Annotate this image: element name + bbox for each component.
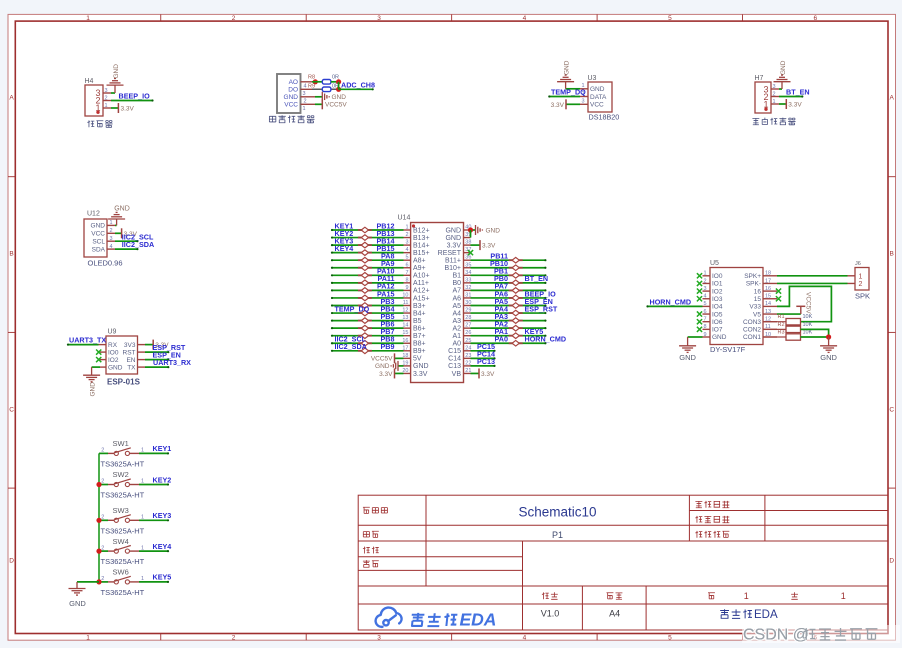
wire U14 pin 3 net PB14 (332, 244, 404, 246)
svg-text:2: 2 (101, 448, 104, 454)
power flag 3.3V at U12 (121, 228, 123, 238)
svg-text:B12+: B12+ (413, 227, 430, 234)
resistor R3 10K (763, 329, 813, 340)
title label 绘制 (363, 547, 370, 554)
switch SW6 (99, 568, 145, 597)
wire U14 pin39 GND (470, 230, 472, 238)
wire U14 pin 28 net PA3 (471, 320, 546, 322)
no-connect U5 pin 1 (697, 273, 702, 278)
no-connect U5 pin 15 (776, 296, 781, 301)
svg-text:A8+: A8+ (413, 258, 426, 265)
junction switch bus (96, 482, 101, 487)
zone tick top (160, 14, 162, 21)
svg-text:9: 9 (703, 332, 706, 338)
svg-text:HORN_CMD: HORN_CMD (525, 335, 567, 344)
wire U14 pin 11 net PB3 (332, 305, 404, 307)
power flag 3.3V at U14 left (394, 368, 396, 378)
wire U14 pin 36 net PB11 (471, 259, 546, 261)
U5 pin 12 (763, 321, 777, 323)
wire H4 pin1 to 3.3V (111, 107, 118, 109)
svg-text:TS3625A-HT: TS3625A-HT (101, 459, 145, 468)
svg-text:H7: H7 (755, 75, 764, 82)
svg-text:A4: A4 (609, 609, 620, 619)
svg-text:TEMP_DQ: TEMP_DQ (551, 88, 586, 97)
U14 pin 20 (404, 372, 411, 374)
svg-text:A5: A5 (452, 303, 461, 310)
svg-text:U12: U12 (87, 211, 100, 218)
power flag VCC5V at sensor (321, 99, 323, 109)
zone tick bottom (305, 634, 307, 641)
svg-text:SW1: SW1 (113, 439, 129, 448)
svg-text:TS3625A-HT: TS3625A-HT (101, 526, 145, 535)
wire U14 pin 5 net PA8 (332, 259, 404, 261)
no-connect IO0 (96, 350, 101, 355)
svg-text:17: 17 (765, 278, 771, 284)
svg-text:IO0: IO0 (108, 349, 119, 356)
svg-text:B15+: B15+ (413, 250, 430, 257)
svg-text:IO4: IO4 (712, 304, 723, 311)
svg-text:B1: B1 (452, 273, 461, 280)
svg-text:SPK-: SPK- (746, 281, 761, 288)
zone tick top (742, 14, 744, 21)
svg-text:A3: A3 (452, 318, 461, 325)
wire U14 pin38 3.3V (471, 244, 481, 246)
MCU U14 (411, 223, 464, 383)
svg-text:IO6: IO6 (712, 319, 723, 326)
svg-text:RESET: RESET (438, 250, 462, 257)
U5 pin 5 (703, 305, 711, 307)
wire CON1 to ground node (801, 336, 829, 338)
svg-text:GND: GND (590, 86, 605, 93)
svg-text:A0: A0 (452, 341, 461, 348)
svg-text:A: A (890, 94, 895, 101)
power flag 3.3V at H7 (785, 99, 787, 109)
wire U14 pin 6 net PA9 (332, 267, 404, 269)
junction switch bus (96, 518, 101, 523)
U14 pin 25 (464, 342, 471, 344)
svg-text:18: 18 (765, 271, 771, 277)
U14 pin 29 (464, 312, 471, 314)
net port diamond left row 14 (358, 327, 372, 329)
svg-text:A9+: A9+ (413, 265, 426, 272)
U14 pin 9 (404, 289, 411, 291)
title label 图页 (363, 532, 369, 537)
svg-text:3.3V: 3.3V (481, 371, 495, 378)
wire U9 GND (92, 366, 100, 368)
wire U14 pin 4 net PB15 (332, 252, 404, 254)
power flag VCC5V at U5 (800, 306, 802, 314)
wire U5 GND (688, 336, 703, 338)
wire U14 pin 8 net PA11 (332, 282, 404, 284)
title label 原理图 (363, 507, 370, 513)
sensor module box 烟雾传感器 (277, 74, 301, 113)
wire H7 pin1 to 3.3V (779, 103, 786, 105)
wire U14 net PC14 (471, 357, 495, 359)
wire SPK- to J6 (777, 282, 848, 284)
svg-text:IO0: IO0 (712, 273, 723, 280)
svg-text:A4: A4 (452, 310, 461, 317)
svg-text:V33: V33 (749, 304, 761, 311)
switch SW4 (99, 537, 145, 566)
svg-text:UART3_RX: UART3_RX (153, 358, 191, 367)
U9 pin IO0 (100, 351, 106, 353)
U9 pin RST (138, 351, 146, 353)
H7 value 声音传感器 (752, 118, 759, 124)
OLED display U12 (84, 219, 107, 257)
svg-text:B14+: B14+ (413, 242, 430, 249)
svg-text:3: 3 (581, 99, 584, 105)
svg-text:2: 2 (101, 479, 104, 485)
ground flag GND at U14 left (397, 361, 399, 371)
svg-text:10K: 10K (803, 314, 813, 320)
wire U9 3V3 (145, 344, 153, 346)
svg-text:3: 3 (377, 634, 381, 641)
sensor pin 1 VCC (301, 103, 316, 105)
H7 pin 3 (771, 88, 779, 90)
power flag 3.3V at VB (478, 368, 480, 378)
svg-text:GND: GND (89, 382, 96, 397)
U14 pin 23 (464, 357, 471, 359)
title label 共 (791, 592, 798, 599)
wire U14 pin 13 net PB5 (332, 320, 404, 322)
net port diamond left row 5 (358, 259, 372, 261)
svg-text:IO1: IO1 (712, 281, 723, 288)
wire U14 pin 25 net PA0 (471, 342, 546, 344)
svg-text:R1: R1 (778, 314, 785, 320)
svg-text:DS18B20: DS18B20 (589, 113, 620, 122)
ground flag GND above H4 (107, 84, 124, 86)
svg-text:ESP-01S: ESP-01S (107, 378, 141, 387)
net port diamond left row 15 (358, 335, 372, 337)
U12 pin 1 (107, 224, 115, 226)
U14 pin 5 (404, 259, 411, 261)
svg-text:B5: B5 (413, 318, 422, 325)
wire KEY4 (139, 550, 168, 552)
svg-text:GND: GND (679, 353, 696, 362)
svg-text:SPK+: SPK+ (744, 273, 761, 280)
wire U14 pin 12 net PB4 (332, 312, 404, 314)
H4 value 蜂鸣器 (87, 120, 94, 127)
svg-text:PC13: PC13 (477, 357, 495, 366)
ground flag GND switches (69, 588, 86, 590)
title label 创建日期 (695, 516, 702, 523)
wire UART3_RX (145, 366, 168, 368)
U14 pin 17 (404, 350, 411, 352)
net port diamond left row 2 (358, 237, 372, 239)
svg-text:BEEP_IO: BEEP_IO (119, 92, 151, 101)
svg-text:R8: R8 (308, 75, 315, 81)
wire KEY3 (139, 519, 168, 521)
svg-text:B3+: B3+ (413, 303, 426, 310)
U5 pin 8 (703, 328, 711, 330)
zone tick bottom (451, 634, 453, 641)
svg-text:A: A (9, 94, 14, 101)
net port diamond left row 6 (358, 267, 372, 269)
svg-text:GND: GND (69, 599, 86, 608)
svg-text:EN: EN (126, 357, 135, 364)
svg-text:8: 8 (703, 324, 706, 330)
logo text 嘉立创EDA (411, 613, 458, 626)
svg-text:V1.0: V1.0 (541, 609, 560, 619)
U5 pin 4 (703, 298, 711, 300)
wire KEY1 (139, 452, 168, 454)
svg-text:VCC5V: VCC5V (371, 356, 393, 363)
svg-text:HORN_CMD: HORN_CMD (650, 297, 692, 306)
svg-text:OLED0.96: OLED0.96 (88, 259, 123, 268)
wire ESP_EN (145, 359, 168, 361)
svg-text:1: 1 (86, 15, 90, 22)
wire U14 pin 9 net PA12 (332, 289, 404, 291)
net port diamond right row 10 (509, 297, 523, 299)
svg-text:B: B (890, 250, 894, 257)
svg-text:A6: A6 (452, 295, 461, 302)
svg-text:B8+: B8+ (413, 341, 426, 348)
wire H4 pin3 to GND (111, 92, 115, 94)
svg-text:15: 15 (754, 296, 762, 303)
net port diamond left row 16 (358, 342, 372, 344)
svg-text:3: 3 (110, 236, 113, 242)
svg-text:5: 5 (703, 301, 706, 307)
wire U14 pin 32 net PA7 (471, 289, 546, 291)
svg-text:6: 6 (405, 262, 408, 268)
svg-text:A2: A2 (452, 325, 461, 332)
net port diamond right row 12 (509, 312, 523, 314)
U5 pin 1 (703, 275, 711, 277)
svg-text:B11+: B11+ (445, 258, 461, 265)
switch SW2 (99, 470, 145, 499)
watermark CSDN @猫女士的喵 (742, 625, 900, 644)
svg-text:3.3V: 3.3V (788, 102, 802, 109)
zone tick top (451, 14, 453, 21)
H4 pin 1 (103, 107, 111, 109)
U14 pin 32 (464, 289, 471, 291)
U14 pin 27 (464, 327, 471, 329)
ground flag GND at U14 right (475, 225, 477, 235)
svg-text:EDA: EDA (754, 609, 778, 621)
connector H7 (755, 82, 771, 113)
no-connect U5 pin 7 (697, 319, 702, 324)
net port diamond right row 7 (509, 274, 523, 276)
zone tick left (8, 176, 15, 178)
wire U12 GND (115, 224, 117, 226)
wire HORN_CMD to U5 (648, 305, 703, 307)
svg-text:VB: VB (452, 371, 462, 378)
wire CON2 to node (801, 329, 829, 337)
svg-text:ADC_CH8: ADC_CH8 (341, 80, 375, 89)
U5 pin 9 (703, 336, 711, 338)
svg-text:2: 2 (105, 95, 108, 101)
svg-text:VCC5V: VCC5V (805, 292, 812, 314)
U14 pin 10 (404, 297, 411, 299)
wire U14 pin 15 net PB7 (332, 335, 404, 337)
svg-text:5: 5 (668, 634, 672, 641)
U12 pin 2 (107, 232, 115, 234)
svg-text:U5: U5 (710, 260, 719, 267)
wire U14 pin 16 net PB8 (332, 342, 404, 344)
svg-text:1: 1 (703, 271, 706, 277)
svg-text:14: 14 (765, 301, 771, 307)
svg-text:5V: 5V (413, 356, 422, 363)
U14 pin 39 (464, 237, 471, 239)
U14 pin 16 (404, 342, 411, 344)
net port diamond left row 3 (358, 244, 372, 246)
U12 pin 3 (107, 240, 115, 242)
U5 pin 14 (763, 305, 777, 307)
U3 pin 1 (580, 88, 588, 90)
wire IIC2_SCL (115, 240, 137, 242)
svg-text:13: 13 (765, 309, 771, 315)
svg-text:TS3625A-HT: TS3625A-HT (101, 557, 145, 566)
svg-text:C15: C15 (448, 348, 461, 355)
sensor pin 3 DO (301, 88, 313, 90)
connector J6 SPK (855, 268, 869, 291)
net port diamond left row 11 (358, 305, 372, 307)
svg-text:7: 7 (405, 270, 408, 276)
svg-text:IIC2_SDA: IIC2_SDA (335, 342, 367, 351)
temperature sensor U3 (588, 82, 612, 112)
svg-text:CON2: CON2 (743, 327, 761, 334)
no-connect U5 pin 6 (697, 311, 702, 316)
svg-text:DO: DO (288, 86, 298, 93)
power flag VCC5V at U14 (394, 353, 396, 363)
svg-text:BT_EN: BT_EN (525, 274, 549, 283)
U14 pin 19 (404, 365, 411, 367)
wire ADC_CH8 (339, 88, 373, 90)
svg-text:CSDN @: CSDN @ (743, 627, 809, 644)
junction switch bus (96, 579, 101, 584)
svg-text:GND: GND (820, 353, 837, 362)
wire U14 pin 26 net PA1 (471, 335, 546, 337)
wire U3 VCC to 3.3V (566, 103, 580, 105)
no-connect U5 pin 4 (697, 296, 702, 301)
svg-text:4: 4 (703, 294, 706, 300)
net port diamond right row 6 (509, 267, 523, 269)
U14 pin 38 (464, 244, 471, 246)
sensor value 烟雾传感器 (269, 116, 275, 122)
wire ESP_RST (145, 351, 168, 353)
ground flag GND right of U5 (820, 345, 837, 347)
svg-text:4: 4 (523, 15, 527, 22)
svg-text:1: 1 (744, 591, 749, 601)
svg-text:IIC2_SDA: IIC2_SDA (122, 240, 154, 249)
ground flag GND below U5 (679, 345, 696, 347)
net port diamond left row 7 (358, 274, 372, 276)
svg-text:1: 1 (859, 273, 863, 280)
ground flag GND above U12 (108, 218, 125, 220)
wire U14 net PC15 (471, 350, 495, 352)
wire switch common bus (98, 453, 100, 582)
zone tick bottom (596, 634, 598, 641)
svg-text:2: 2 (232, 15, 236, 22)
svg-text:3.3V: 3.3V (447, 242, 462, 249)
wire U14 net PC13 (471, 365, 495, 367)
svg-text:B6+: B6+ (413, 325, 426, 332)
svg-text:SW4: SW4 (113, 537, 129, 546)
svg-text:GND: GND (284, 94, 299, 101)
svg-text:AO: AO (289, 79, 298, 86)
ground flag GND above U3 (557, 81, 574, 83)
sensor pin 4 AO (301, 81, 313, 83)
net port diamond right row 15 (509, 335, 523, 337)
U14 pin 8 (404, 282, 411, 284)
svg-text:3: 3 (703, 286, 706, 292)
U14 pin 4 (404, 252, 411, 254)
net port diamond left row 4 (358, 252, 372, 254)
net port diamond right row 8 (509, 282, 523, 284)
svg-text:GND: GND (445, 227, 461, 234)
svg-text:3.3V: 3.3V (413, 371, 428, 378)
svg-text:3: 3 (303, 91, 306, 97)
junction node A top (336, 79, 341, 84)
switch SW3 (99, 506, 145, 535)
wire U5 V5 (777, 313, 801, 315)
wire DO to R9 gray (312, 88, 339, 90)
svg-text:SDA: SDA (92, 246, 106, 253)
wire AO to R8 (312, 81, 322, 83)
U5 pin 15 (763, 298, 777, 300)
svg-text:3.3V: 3.3V (121, 106, 135, 113)
U9 pin RX (99, 344, 107, 346)
svg-text:KEY4: KEY4 (335, 244, 354, 253)
zone tick left (8, 487, 15, 489)
junction switch bus (96, 549, 101, 554)
wire U14 pin 29 net PA4 (471, 312, 546, 314)
svg-text:DATA: DATA (590, 94, 607, 101)
H7 pin 2 (771, 96, 779, 98)
net port diamond right row 16 (509, 342, 523, 344)
svg-text:SW2: SW2 (113, 470, 129, 479)
svg-text:3: 3 (773, 84, 776, 90)
svg-text:2: 2 (110, 228, 113, 234)
svg-text:PA0: PA0 (495, 335, 508, 344)
U14 pin 24 (464, 350, 471, 352)
svg-text:SPK: SPK (855, 292, 870, 301)
svg-text:A7: A7 (452, 288, 461, 295)
U14 pin 7 (404, 274, 411, 276)
svg-text:BT_EN: BT_EN (786, 88, 810, 97)
U14 pin 15 (404, 335, 411, 337)
svg-text:RST: RST (123, 349, 136, 356)
svg-text:V5: V5 (753, 311, 761, 318)
svg-text:2: 2 (101, 545, 104, 551)
U5 pin 18 (763, 275, 777, 277)
svg-text:U3: U3 (588, 75, 597, 82)
U14 pin 34 (464, 274, 471, 276)
zone tick bottom (742, 634, 744, 641)
U14 pin 31 (464, 297, 471, 299)
power flag 3.3V at U3 (565, 99, 567, 109)
wire U14 3.3V (395, 372, 404, 374)
junction pin40 (468, 227, 473, 232)
svg-text:IO2: IO2 (108, 357, 119, 364)
wifi module U9 ESP-01S (106, 336, 138, 374)
wire UART3_TX (68, 344, 99, 346)
U9 pin GND (100, 366, 106, 368)
svg-text:A15+: A15+ (413, 295, 430, 302)
net port diamond right row 13 (509, 320, 523, 322)
title label 页 (708, 593, 715, 599)
U14 pin 37 (464, 252, 471, 254)
wire sensor VCC (315, 103, 322, 105)
svg-text:3.3V: 3.3V (482, 242, 496, 249)
svg-text:10K: 10K (803, 322, 813, 328)
no-connect RESET (468, 250, 473, 255)
U3 pin 2 (580, 96, 588, 98)
U14 pin 11 (404, 305, 411, 307)
svg-text:TX: TX (127, 364, 136, 371)
U14 pin 2 (404, 237, 411, 239)
wire U14 pin 35 net PB10 (471, 267, 546, 269)
